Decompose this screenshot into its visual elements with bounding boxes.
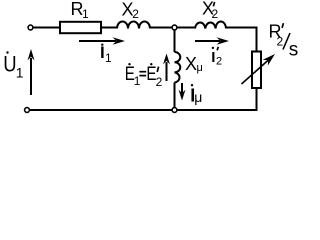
wire bottom — [30, 109, 173, 111]
wire node A down to Xmu — [174, 30, 176, 52]
wire R1 to X2 — [101, 27, 117, 29]
wire Xmu down to node B — [174, 83, 176, 108]
svg-text:2: 2 — [212, 7, 219, 21]
label I'2 — [212, 47, 214, 49]
arrow I1 — [79, 40, 116, 42]
label I1 — [101, 44, 103, 46]
terminal T2 bottom-left — [25, 108, 30, 113]
voltage arrow U1 — [30, 58, 32, 95]
wire top-left to R1 — [33, 27, 60, 29]
wire X'2 to top-right corner and down — [226, 28, 257, 52]
svg-text:2: 2 — [216, 56, 222, 68]
svg-text:μ: μ — [194, 89, 202, 105]
svg-text:X: X — [185, 54, 197, 74]
svg-text:2: 2 — [156, 75, 163, 89]
variable-resistor arrow through R'2/s — [242, 60, 269, 84]
svg-text:s: s — [289, 40, 299, 61]
svg-text:2: 2 — [277, 35, 284, 49]
wire R'2/s down to bottom-right corner — [177, 88, 257, 110]
svg-text:1: 1 — [82, 7, 89, 21]
wire X2 to node A — [150, 27, 172, 29]
wire node A to X'2 — [177, 27, 195, 29]
svg-text:I: I — [211, 49, 215, 66]
arrow Imu — [181, 83, 183, 93]
svg-text:μ: μ — [197, 62, 203, 74]
inductor Xmu — [175, 52, 181, 83]
terminal T1 top-left — [28, 25, 33, 30]
inductor X2 — [117, 22, 150, 29]
svg-text:1: 1 — [16, 65, 24, 81]
emf arrow E1=E'2 — [166, 62, 168, 81]
node B bottom junction — [172, 108, 177, 113]
arrow I'2 — [195, 40, 220, 42]
resistor R'2/s — [252, 52, 261, 89]
svg-text:U: U — [3, 53, 16, 77]
label E1=E'2 — [128, 63, 130, 65]
label Imu — [191, 84, 193, 86]
node A top junction — [172, 25, 177, 30]
label U1 — [6, 51, 8, 53]
svg-text:1: 1 — [105, 51, 112, 65]
svg-text:2: 2 — [132, 7, 139, 21]
resistor R1 — [60, 22, 101, 33]
inductor X'2 — [195, 22, 226, 29]
